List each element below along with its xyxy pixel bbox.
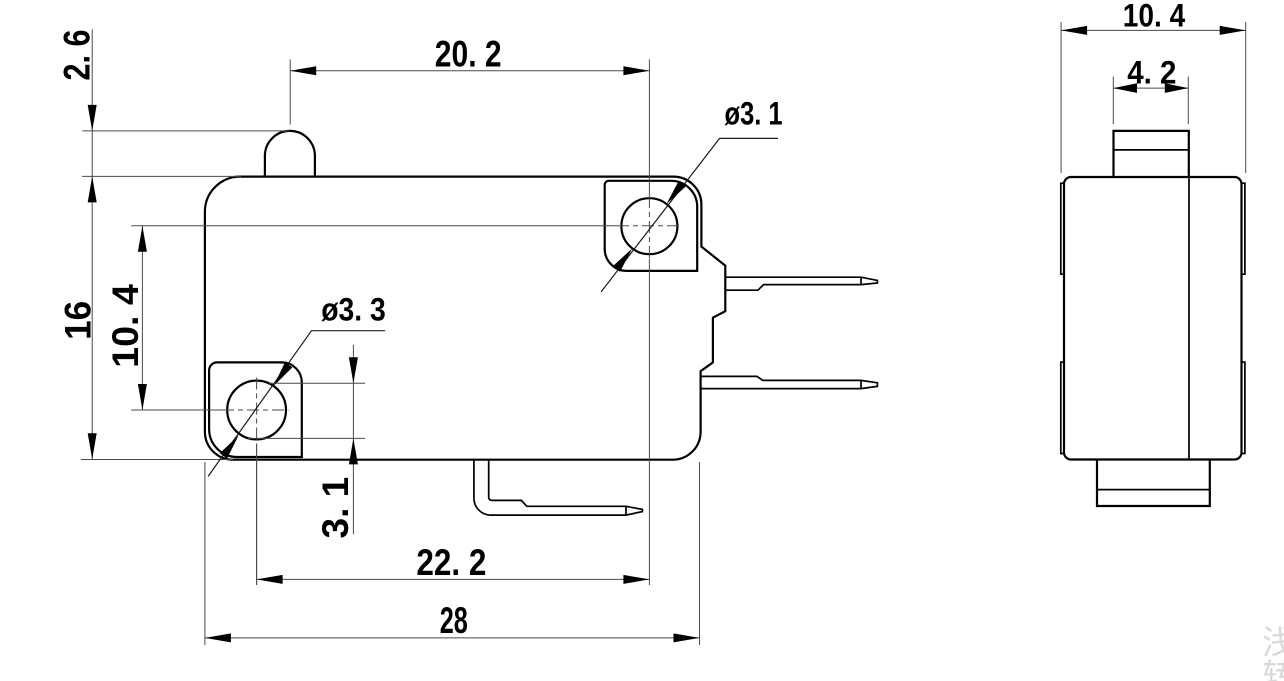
side bottom block line	[1097, 489, 1210, 491]
svg-text:20. 2: 20. 2	[435, 33, 502, 74]
dimension 22.2 arrow right	[623, 575, 649, 584]
dimension 4.2 arrow right	[1165, 83, 1189, 93]
dimension 3.1 reference line lower	[248, 437, 365, 439]
dimension 3.1 arrow top	[349, 357, 358, 383]
dimension 10.4 arrow top	[138, 226, 147, 252]
pin top taper edge	[860, 277, 862, 284]
switch body outline	[205, 177, 725, 460]
dimension 10.4 side extension left	[1060, 22, 1062, 173]
dimension 28 extension right	[699, 462, 701, 645]
svg-text:16: 16	[58, 301, 99, 340]
plunger button dome	[265, 131, 315, 177]
svg-text:2. 6: 2. 6	[56, 30, 97, 81]
dimension 22.2 line	[257, 578, 650, 580]
side tab left lower	[1061, 362, 1064, 453]
side body outline	[1064, 177, 1242, 460]
dimension 10.4 side arrow right	[1220, 26, 1246, 35]
side bottom block	[1097, 460, 1210, 507]
dimension 2.6/16 arrow shared	[88, 176, 97, 202]
dimension 4.2 line	[1113, 87, 1188, 89]
leader 3.3 arrow lower	[220, 435, 239, 458]
dimension 22.2 arrow left	[257, 575, 283, 584]
dimension 4.2 arrow left	[1113, 83, 1137, 93]
leader 3.1 arrow lower	[613, 248, 633, 271]
side body parting line	[1188, 177, 1190, 460]
leader diameter 3.1	[601, 138, 778, 292]
leader 3.1 arrow upper	[667, 181, 687, 204]
svg-text:10. 4: 10. 4	[1123, 0, 1186, 34]
centerline horizontal through top-right hole	[131, 225, 617, 227]
side tab right upper	[1242, 183, 1245, 274]
svg-text:3. 1: 3. 1	[315, 477, 356, 539]
dimension 20.2 arrow right	[623, 66, 649, 75]
svg-text:转: 转	[1262, 657, 1284, 681]
svg-text:22. 2: 22. 2	[416, 542, 486, 583]
dimension 10.4 side arrow left	[1061, 26, 1087, 35]
svg-text:28: 28	[440, 600, 468, 641]
extension line plunger top	[82, 130, 289, 132]
dimension 10.4 side extension right	[1245, 22, 1247, 173]
leader 3.3 arrow upper	[274, 362, 293, 386]
dimension 3.1 vertical line	[352, 345, 354, 534]
dimension 2.6/16 vertical line	[91, 29, 93, 459]
dimension 10.4 arrow bottom	[138, 384, 147, 410]
dimension 20.2 arrow left	[290, 66, 316, 75]
svg-text:ø3. 1: ø3. 1	[725, 96, 783, 132]
dimension 10.4 side line	[1061, 29, 1246, 31]
dimension 22.2 extension left	[256, 444, 258, 586]
side tab right lower	[1242, 362, 1245, 453]
centerline vertical through bottom-left hole	[256, 378, 258, 444]
leader diameter 3.3	[208, 331, 385, 477]
centerline horizontal through bottom-left hole	[131, 409, 222, 411]
dimension 16 arrow bottom	[88, 433, 97, 459]
svg-text:4. 2: 4. 2	[1127, 55, 1176, 91]
pin bottom taper edge	[860, 380, 862, 388]
extension line body top	[82, 175, 241, 177]
terminal pin top	[725, 277, 877, 290]
hole circle bottom-left	[227, 381, 286, 440]
mounting ear pad top-right	[605, 181, 698, 271]
centerline vertical through top-right hole	[648, 59, 650, 196]
dimension 28 arrow left	[205, 633, 231, 642]
dimension 28 arrow right	[674, 633, 700, 642]
mounting ear pad bottom-left	[209, 362, 302, 457]
dimension 28 line	[205, 637, 700, 639]
svg-text:浅: 浅	[1262, 624, 1284, 661]
svg-text:10. 4: 10. 4	[105, 284, 146, 368]
dimension 4.2 extension left	[1112, 77, 1114, 124]
dimension 10.4 vertical line	[141, 226, 143, 410]
L-pin taper edge	[625, 506, 627, 515]
svg-text:ø3. 3: ø3. 3	[321, 291, 386, 327]
terminal pin middle L-shaped	[474, 460, 643, 515]
dimension 4.2 extension right	[1187, 77, 1189, 124]
side tab left upper	[1061, 183, 1064, 274]
dimension 2.6 arrow top	[88, 105, 97, 131]
terminal pin bottom	[701, 376, 878, 388]
dimension 3.1 reference line upper	[269, 382, 365, 384]
dimension 20.2 line	[290, 70, 649, 72]
dimension 28 extension left	[204, 462, 206, 645]
dimension 20.2 extension line at plunger	[289, 59, 291, 124]
extension line body bottom	[81, 459, 233, 461]
hole circle top-right	[621, 198, 677, 254]
dimension 3.1 arrow bottom	[349, 438, 358, 464]
side button	[1114, 131, 1189, 177]
side button line	[1114, 149, 1189, 151]
